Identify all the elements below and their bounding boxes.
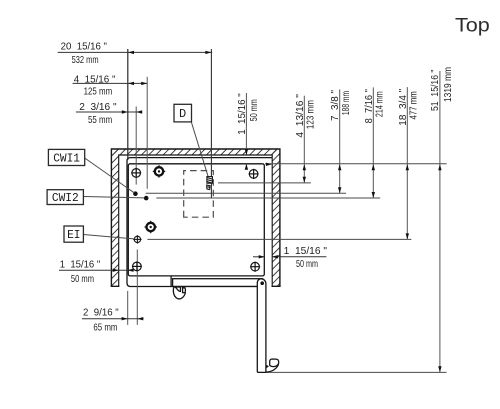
dimension line 50mm right [253,256,265,258]
svg-text:CWI2: CWI2 [52,191,79,205]
dimension line 477mm vertical [406,87,408,239]
extension line 125mm CWI2 column [146,77,148,189]
wire leader row 188mm (CWI1) [146,192,346,194]
svg-text:EI: EI [67,228,80,242]
svg-text:50 mm: 50 mm [71,273,94,285]
svg-text:2 3/16 ": 2 3/16 " [79,101,117,113]
label box D [174,104,192,122]
dimension line 55mm [76,111,141,113]
door hinge pivot dot [260,281,264,285]
extension line 65mm right [136,250,138,325]
dimension line 532mm [58,51,213,53]
door panel (open position) [257,279,266,373]
EI fixing crosshair [133,235,141,243]
wall hatch left band [111,149,118,286]
dashed glass panel outline D [184,171,214,218]
arrow at tray corner right [266,163,272,166]
leader D [191,122,208,177]
svg-text:1 15/16 ": 1 15/16 " [236,93,248,135]
svg-text:214 mm: 214 mm [374,91,386,117]
shower tray outer rim [127,158,272,287]
wall fixing bolt top-right [249,169,259,179]
wall outer outline [111,149,280,286]
door handle curl (sill end) [173,287,185,299]
wall inner face [119,155,273,286]
label box CWI2 [47,190,83,205]
svg-text:477 mm: 477 mm [408,91,420,119]
dimension line 188mm vertical [339,89,341,193]
svg-text:2 9/16 ": 2 9/16 " [83,307,119,319]
svg-text:123 mm: 123 mm [305,100,317,129]
node CWI2 point [144,196,149,201]
svg-text:50 mm: 50 mm [296,258,318,270]
wire leader row 1319mm (door end) [267,371,447,373]
svg-text:532 mm: 532 mm [72,54,99,66]
wall bottom end caps [111,285,281,287]
fixed panel end cap [170,276,172,286]
drain target symbol upper [153,165,165,177]
dimension line 123mm vertical [303,96,305,183]
dimension line 50mm top vertical [245,93,247,155]
wall fixing bolt bottom-left [132,261,142,271]
part D bracket [207,177,213,190]
dimension line 1319mm vertical [439,71,441,372]
svg-text:51 15/16 ": 51 15/16 " [429,69,441,111]
dimension line 50mm bottom-left [59,269,134,271]
door handle curl (open door end) [266,359,279,372]
leader CWI2 [83,197,144,198]
wire leader row 123mm (part D) [218,182,311,184]
dimension line 65mm [82,318,144,320]
dimension line 125mm [73,82,148,84]
extension line 532mm part D column [210,49,212,198]
dimension line 214mm vertical [372,87,374,198]
svg-text:50 mm: 50 mm [248,99,260,121]
svg-text:CWI1: CWI1 [53,151,80,165]
wall hatch right band [272,149,280,286]
svg-text:1 15/16 ": 1 15/16 " [60,259,101,271]
svg-text:188 mm: 188 mm [340,91,352,115]
wall hatch top band [111,149,280,155]
extension line 55mm bolt column [135,107,137,185]
shower tray inner rim [128,164,264,276]
svg-text:1319 mm: 1319 mm [442,67,454,102]
svg-text:55 mm: 55 mm [88,114,112,126]
drain target symbol lower [145,221,157,233]
wire leader row 214mm (CWI2) [156,197,380,199]
svg-text:1 15/16 ": 1 15/16 " [284,245,328,257]
svg-text:65 mm: 65 mm [93,322,117,334]
svg-text:D: D [179,107,186,121]
wall fixing bolt top-left [131,168,141,178]
svg-text:20 15/16 ": 20 15/16 " [61,40,108,52]
extension line tray left edge [127,49,129,160]
leader EI [83,235,134,239]
wall fixing bolt bottom-right [250,262,260,272]
wire leader row 477mm (EI) [147,238,411,240]
label box EI [64,226,83,242]
extension line 65mm left [127,291,129,325]
svg-text:125 mm: 125 mm [84,85,113,97]
node CWI1 point [133,191,138,196]
door sill bar [173,279,262,287]
svg-text:Top: Top [455,15,490,37]
wire reference line 1319mm datum (tray top edge extended right) [265,163,447,165]
label box CWI1 [48,149,84,165]
leader CWI1 [85,158,135,193]
svg-text:4 15/16 ": 4 15/16 " [74,73,116,85]
